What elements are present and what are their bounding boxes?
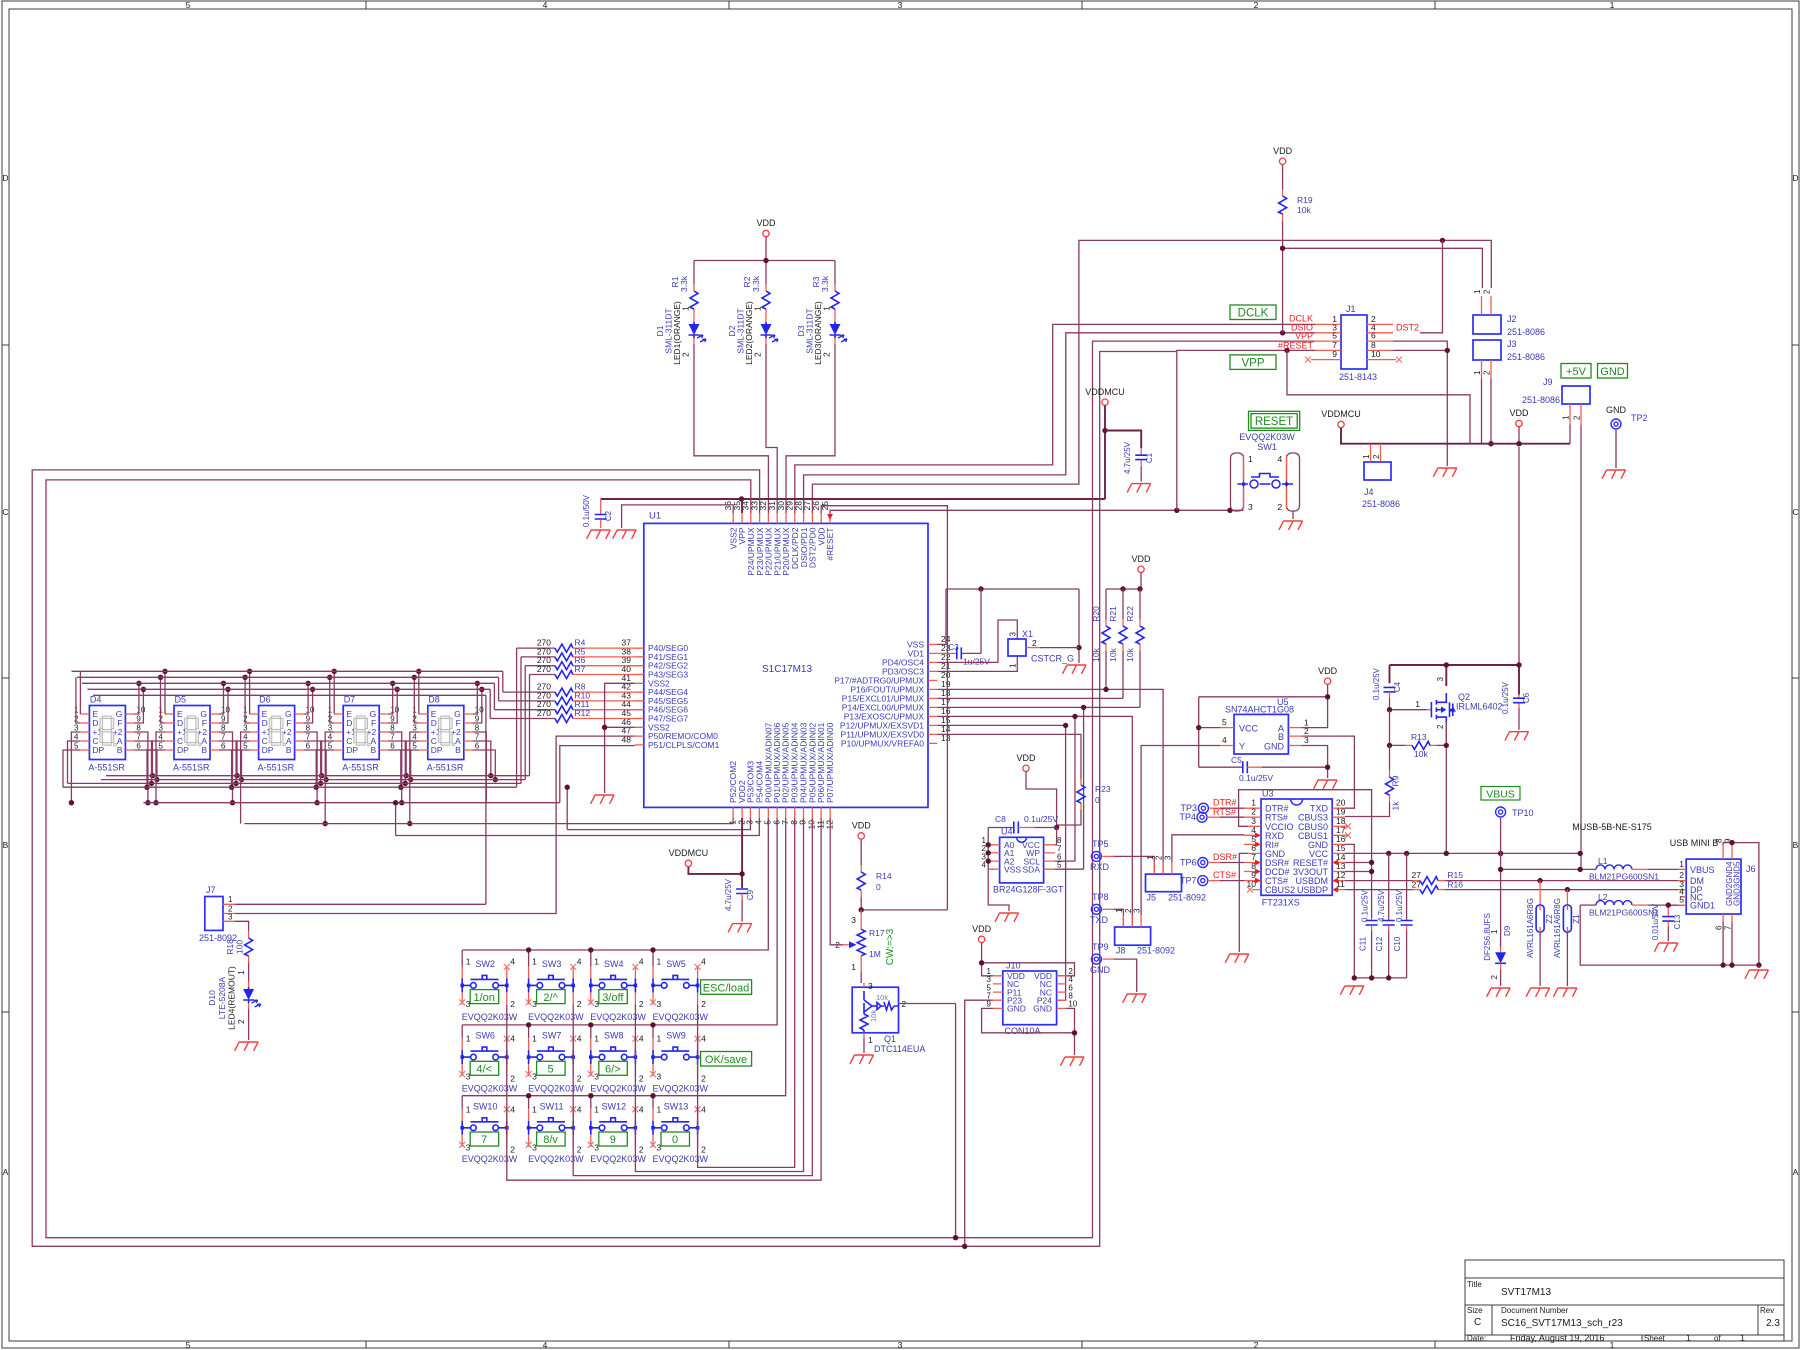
svg-text:1: 1 (1473, 289, 1482, 294)
wire display COM line A (143, 746, 634, 803)
wire DSIO net U1 pin28 to J1 pin3 (804, 333, 1315, 513)
svg-text:4.7u/25V: 4.7u/25V (1123, 441, 1132, 474)
power VDDMCU C1 (1102, 399, 1108, 405)
svg-text:SW4: SW4 (604, 959, 624, 969)
svg-text:VDD: VDD (852, 821, 872, 831)
svg-text:A-551SR: A-551SR (342, 763, 379, 773)
wire Q1 emitter to gnd (863, 1038, 865, 1053)
U1 right pins (928, 644, 937, 743)
resistor R14 0 (857, 865, 865, 897)
wire U4 VCC to C8 (1055, 828, 1057, 845)
diode D9 DF2S6.8UFS (1483, 869, 1512, 986)
junction VPP pin35 (739, 496, 744, 501)
svg-text:GND: GND (1606, 405, 1627, 415)
frame zone ticks bottom (366, 1341, 1435, 1348)
wire VCC row to +5V vertical (1345, 852, 1580, 854)
svg-text:2: 2 (1483, 289, 1492, 294)
svg-text:9: 9 (221, 715, 226, 724)
svg-text:TP7: TP7 (1180, 876, 1197, 886)
svg-text:2: 2 (639, 1074, 644, 1084)
svg-text:4: 4 (243, 733, 248, 742)
svg-text:D5: D5 (175, 695, 187, 705)
svg-text:1: 1 (594, 1104, 599, 1114)
wire RESET# 3V3OUT to C11 column (1345, 863, 1372, 872)
svg-text:9: 9 (1332, 349, 1337, 359)
svg-text:4: 4 (543, 0, 548, 10)
svg-text:1: 1 (236, 970, 246, 975)
wire keypad column 1 (507, 818, 821, 1180)
svg-text:2: 2 (701, 999, 706, 1009)
switch SW3 EVQQ2K03W (526, 957, 585, 1022)
wire pin21 to X1 pin1 (937, 656, 1017, 671)
label VPP green box (1230, 355, 1276, 370)
svg-text:C13: C13 (1673, 914, 1682, 929)
junction row 2 (526, 1022, 656, 1027)
switch SW4 EVQQ2K03W (588, 957, 647, 1022)
key label 4/< (470, 1061, 499, 1075)
svg-text:2: 2 (753, 352, 763, 357)
inductor L1 BLM21PG600SN1 (1589, 856, 1686, 882)
svg-text:2: 2 (236, 1019, 246, 1024)
svg-text:EVQQ2K03W: EVQQ2K03W (590, 1154, 646, 1164)
svg-text:VDD: VDD (1509, 408, 1529, 418)
junction row 3 (526, 1093, 656, 1098)
frame zone letters right (1792, 173, 1798, 1177)
wire Q1 pin2 east (899, 1004, 956, 1238)
svg-text:TP10: TP10 (1512, 808, 1534, 818)
resistor R4 270 (517, 638, 644, 788)
wire R14 to R17 junction (861, 897, 947, 910)
label GND green box (1598, 364, 1628, 379)
svg-text:SN74AHCT1G08: SN74AHCT1G08 (1225, 705, 1294, 715)
wire VSS2 pins 41 46 to gnd (605, 683, 635, 793)
capacitor C2 0.1u/50V (582, 494, 613, 528)
capacitor C9 4.7u/25V (724, 878, 755, 921)
svg-text:2: 2 (701, 1074, 706, 1084)
wire U5 GND to gnd (1302, 746, 1328, 779)
svg-text:SW3: SW3 (542, 959, 562, 969)
wire COM line C (567, 787, 750, 829)
svg-text:5: 5 (1222, 717, 1227, 727)
resistor R12 270 (490, 689, 644, 722)
svg-text:6: 6 (306, 742, 311, 751)
svg-text:1: 1 (1686, 1333, 1691, 1343)
svg-text:1/on: 1/on (473, 992, 494, 1004)
svg-text:1: 1 (594, 957, 599, 967)
wire D10 to gnd (248, 1009, 250, 1040)
svg-text:U4: U4 (1001, 827, 1013, 837)
svg-text:R22: R22 (1125, 606, 1135, 622)
svg-text:3: 3 (851, 915, 856, 925)
svg-text:LED4(REMOUT): LED4(REMOUT) (227, 966, 237, 1030)
svg-text:251-8092: 251-8092 (1168, 893, 1206, 903)
power VDD R14 (858, 833, 864, 839)
wire U5 VCC net (1199, 685, 1328, 768)
ground J1 (1433, 468, 1457, 477)
wire VDD to J10 pins 1 2 (982, 943, 1075, 976)
svg-text:4/<: 4/< (476, 1064, 492, 1076)
svg-text:C: C (1792, 507, 1798, 517)
wire #RESET net U1 pin25 to SW1 (830, 510, 1244, 517)
resistor R16 27 (1345, 879, 1686, 893)
switch SW1 EVQQ2K03W (1231, 432, 1300, 512)
junction #RESET J1 row (1284, 348, 1289, 353)
display D8 A-551SR (412, 695, 484, 773)
svg-text:C5: C5 (1231, 755, 1242, 765)
wire keypad column 4 (698, 818, 795, 1167)
svg-text:R14: R14 (876, 871, 892, 881)
svg-text:OK/save: OK/save (705, 1054, 747, 1066)
ground decoupling (1340, 986, 1364, 995)
svg-text:1M: 1M (869, 949, 881, 959)
junction R19 J2 branch (1280, 246, 1285, 251)
wire L2 to gnd bottom bus (1580, 905, 1759, 965)
svg-text:4: 4 (412, 733, 417, 742)
resistor R22 10k (1136, 619, 1144, 651)
svg-text:VBUS: VBUS (1486, 788, 1515, 800)
svg-text:A-551SR: A-551SR (88, 763, 125, 773)
svg-text:J4: J4 (1364, 487, 1374, 497)
svg-text:1: 1 (1415, 699, 1420, 709)
svg-text:8: 8 (306, 724, 311, 733)
wire DST2 net U1 pin27 to J2 pin2 (812, 240, 1491, 513)
junction dots D7 (314, 669, 414, 827)
svg-text:2: 2 (1483, 370, 1492, 375)
resistor R19 10k (1279, 189, 1287, 221)
svg-text:5: 5 (243, 742, 248, 751)
svg-text:0.1u/25V: 0.1u/25V (1361, 889, 1370, 922)
svg-text:2/^: 2/^ (543, 992, 558, 1004)
svg-text:2: 2 (1254, 0, 1259, 10)
ground SW1 (1279, 521, 1303, 530)
key label 6/> (599, 1061, 628, 1075)
wire P12 row15 to J10 pin8 (937, 725, 1065, 1000)
svg-text:2: 2 (577, 999, 582, 1009)
wire J7 pin3 to R18 (235, 921, 249, 931)
svg-text:4: 4 (639, 1104, 644, 1114)
svg-text:C11: C11 (1359, 936, 1368, 951)
svg-text:C2: C2 (604, 510, 613, 521)
svg-text:0.1u/25V: 0.1u/25V (1372, 667, 1381, 700)
display D7 A-551SR (328, 695, 400, 773)
svg-text:SW6: SW6 (475, 1031, 495, 1041)
svg-text:1: 1 (851, 962, 856, 972)
svg-text:SW1: SW1 (1257, 442, 1277, 452)
svg-text:DF2S6.8UFS: DF2S6.8UFS (1483, 913, 1492, 961)
transistor Q1 DTC114EUA (852, 981, 925, 1054)
wire P24 pin34 long left loop (46, 341, 1315, 1238)
svg-text:VCC: VCC (1239, 724, 1259, 734)
wire U3 GND pin16 down (1345, 844, 1354, 978)
svg-text:TP9: TP9 (1092, 942, 1109, 952)
crystal X1 CSTCR_G (1008, 629, 1079, 668)
svg-text:R23: R23 (1095, 784, 1111, 794)
svg-text:DST2: DST2 (1396, 323, 1419, 333)
svg-text:9: 9 (987, 1000, 992, 1009)
svg-text:8: 8 (136, 724, 141, 733)
svg-text:EVQQ2K03W: EVQQ2K03W (462, 1154, 518, 1164)
svg-text:27: 27 (1412, 879, 1422, 889)
wire display D5 taps (147, 671, 242, 802)
svg-text:251-8086: 251-8086 (1522, 395, 1560, 405)
key label 9 (599, 1132, 628, 1146)
LED D1 SML-311DT (689, 316, 707, 344)
svg-text:1: 1 (1146, 855, 1155, 860)
svg-text:Sheet: Sheet (1644, 1334, 1666, 1343)
svg-text:EVQQ2K03W: EVQQ2K03W (528, 1012, 584, 1022)
svg-text:1: 1 (657, 1034, 662, 1044)
ground D10 (235, 1042, 259, 1051)
svg-text:SW12: SW12 (602, 1101, 627, 1111)
ground Z2 (1526, 988, 1550, 997)
svg-text:6: 6 (1715, 925, 1724, 930)
svg-text:SVT17M13: SVT17M13 (1501, 1287, 1551, 1298)
svg-text:D8: D8 (428, 695, 440, 705)
svg-text:GND3GND5: GND3GND5 (1733, 861, 1742, 906)
svg-text:2: 2 (1032, 638, 1037, 648)
svg-text:Document Number: Document Number (1501, 1306, 1568, 1315)
wire J6 gnd pins bottom (1723, 922, 1732, 965)
svg-text:3: 3 (74, 724, 79, 733)
svg-text:EVQQ2K03W: EVQQ2K03W (653, 1012, 709, 1022)
switch SW12 EVQQ2K03W (588, 1101, 647, 1164)
svg-text:3: 3 (657, 999, 662, 1009)
svg-text:C1: C1 (1145, 452, 1154, 463)
svg-text:A-551SR: A-551SR (427, 763, 464, 773)
svg-text:4: 4 (543, 1340, 548, 1350)
svg-text:4: 4 (159, 733, 164, 742)
svg-text:10: 10 (1371, 349, 1381, 359)
svg-text:P07/UPMUX/ADIN00: P07/UPMUX/ADIN00 (825, 722, 835, 803)
svg-text:2: 2 (1124, 908, 1133, 913)
svg-text:GND1: GND1 (1690, 901, 1715, 911)
wire TP2 to gnd (1615, 430, 1617, 468)
power VDD R19 (1279, 158, 1285, 164)
svg-text:U1: U1 (649, 511, 661, 522)
svg-text:0.1u/25V: 0.1u/25V (1024, 814, 1058, 824)
svg-text:C9: C9 (746, 889, 755, 900)
svg-text:251-8143: 251-8143 (1339, 372, 1377, 382)
wire R18 to D10 (248, 963, 250, 981)
frame zone ticks left (2, 345, 9, 1012)
svg-text:5: 5 (548, 1064, 554, 1076)
frame zone ticks right (1792, 345, 1799, 1012)
junction Z2 Z1 (1537, 878, 1542, 883)
svg-text:5: 5 (412, 742, 417, 751)
svg-text:R17: R17 (869, 928, 885, 938)
svg-text:1: 1 (1009, 663, 1018, 668)
svg-text:10: 10 (136, 706, 145, 715)
resistor R23 0 (1077, 778, 1085, 810)
svg-text:P10/UPMUX/VREFA0: P10/UPMUX/VREFA0 (841, 738, 924, 748)
wire VCCIO net U3 pin3 (1239, 790, 1372, 918)
wire display D7 taps (316, 671, 411, 823)
svg-text:10: 10 (306, 706, 315, 715)
svg-text:3: 3 (1164, 855, 1173, 860)
svg-text:251-8086: 251-8086 (1507, 327, 1545, 337)
capacitor C13 0.01u/50V (1651, 902, 1686, 941)
svg-text:6/>: 6/> (605, 1064, 621, 1076)
key label 7 (470, 1132, 499, 1146)
capacitor C5 0.1u/25V (1199, 755, 1328, 783)
svg-text:4: 4 (639, 957, 644, 967)
svg-text:4: 4 (577, 957, 582, 967)
svg-text:SW8: SW8 (604, 1031, 624, 1041)
resistor R8 270 (503, 671, 644, 696)
wire J10 P23 pin7 to loop (965, 1000, 993, 1246)
svg-text:VPP: VPP (1295, 331, 1313, 341)
wire J9 pin1 to VDD bus (1569, 425, 1571, 444)
svg-text:R20: R20 (1091, 606, 1101, 622)
svg-text:1: 1 (532, 1034, 537, 1044)
svg-text:270: 270 (537, 664, 551, 674)
svg-text:B: B (286, 745, 292, 755)
svg-text:10k: 10k (1297, 205, 1311, 215)
svg-text:2: 2 (822, 352, 832, 357)
svg-text:4: 4 (639, 1034, 644, 1044)
svg-text:251-8092: 251-8092 (1137, 946, 1175, 956)
svg-text:R13: R13 (1411, 732, 1427, 742)
wire R23 to C8 (1057, 810, 1081, 828)
svg-text:TP8: TP8 (1092, 892, 1109, 902)
svg-text:Q1: Q1 (884, 1034, 896, 1044)
varistor Z2 AVRL161A6R8G (1526, 881, 1554, 986)
testpoint TP10 (1496, 807, 1506, 817)
frame zone letters left (2, 173, 8, 1177)
header J2 251-8086 (1473, 289, 1545, 337)
svg-text:IRLML6402: IRLML6402 (1456, 702, 1503, 712)
svg-text:+5V: +5V (1566, 366, 1587, 378)
svg-text:10k: 10k (1091, 647, 1101, 661)
svg-text:TP5: TP5 (1092, 839, 1109, 849)
svg-text:DP: DP (346, 745, 358, 755)
svg-text:VDDMCU: VDDMCU (1321, 409, 1361, 419)
svg-text:0.1u/25V: 0.1u/25V (1395, 889, 1404, 922)
svg-text:1: 1 (466, 1034, 471, 1044)
resistor R9 1k (1345, 745, 1401, 816)
wire U1 pin12 to R17 wiper (830, 818, 843, 945)
power VDD U4 (1023, 765, 1029, 771)
capacitor C8 0.1u/25V (988, 814, 1058, 834)
junction DSIO R19 (1280, 330, 1285, 335)
svg-text:4: 4 (510, 957, 515, 967)
svg-text:4: 4 (510, 1034, 515, 1044)
svg-text:0: 0 (672, 1134, 678, 1146)
capacitor C1 4.7u/25V (1123, 441, 1154, 481)
ground TP2 (1602, 470, 1626, 479)
svg-text:DCLK: DCLK (1238, 308, 1269, 320)
wire VDDMCU down to VPP line (1104, 406, 1106, 500)
svg-text:Friday, August 19, 2016: Friday, August 19, 2016 (1510, 1333, 1604, 1343)
svg-text:J5: J5 (1147, 893, 1157, 903)
wire DCLK net U1 pin29 to J1 pin1 (795, 324, 1315, 513)
frame zone numbers bottom (186, 1340, 1615, 1350)
wire VDD pin26 to R14 (821, 506, 947, 910)
usb connector J6 MUSB-5B-NE-S175 (1572, 822, 1755, 930)
svg-text:1: 1 (532, 957, 537, 967)
ground crystal (1063, 665, 1087, 674)
svg-text:USBDP: USBDP (1297, 885, 1328, 895)
resistor R10 270 (499, 677, 644, 705)
svg-text:1: 1 (868, 1035, 873, 1045)
svg-text:B: B (117, 745, 123, 755)
svg-text:D7: D7 (344, 695, 356, 705)
header J10 CON10A (987, 961, 1078, 1037)
svg-text:B: B (1278, 732, 1284, 742)
svg-text:2: 2 (510, 1074, 515, 1084)
svg-text:2: 2 (1490, 974, 1499, 979)
svg-text:3: 3 (228, 913, 233, 922)
wire J1 pin6 pin8 to gnd (1393, 341, 1447, 466)
wire keypad column 3 (635, 818, 803, 1172)
svg-text:3: 3 (657, 1072, 662, 1082)
svg-text:CON10A: CON10A (1005, 1026, 1041, 1036)
svg-text:VSS: VSS (1004, 864, 1021, 874)
wire VDDMCU bus (1341, 428, 1570, 444)
switch SW8 EVQQ2K03W (588, 1031, 647, 1094)
svg-text:10: 10 (221, 706, 230, 715)
wire P23 pin33 long left loop (32, 352, 1177, 1247)
key label 5 (537, 1061, 566, 1075)
label VBUS green box (1481, 787, 1520, 801)
svg-text:EVQQ2K03W: EVQQ2K03W (528, 1154, 584, 1164)
svg-text:2: 2 (577, 1144, 582, 1154)
ground U3 left (1225, 954, 1249, 963)
svg-text:A-551SR: A-551SR (258, 763, 295, 773)
key label 2/^ (537, 990, 566, 1004)
svg-text:5: 5 (186, 0, 191, 10)
svg-text:A: A (1793, 1167, 1799, 1177)
wire display D6 taps (232, 671, 327, 823)
svg-text:DP: DP (431, 745, 443, 755)
svg-text:#RESET: #RESET (1278, 341, 1314, 351)
svg-text:4: 4 (1222, 735, 1227, 745)
svg-text:CW:=>3: CW:=>3 (885, 928, 896, 965)
wire VDD down to Q2 node (1518, 447, 1520, 665)
svg-text:9: 9 (306, 715, 311, 724)
LED D2 SML-311DT (761, 316, 779, 344)
key label 1/on (470, 990, 499, 1004)
svg-text:B: B (1793, 840, 1799, 850)
svg-text:DP: DP (262, 745, 274, 755)
svg-text:7: 7 (136, 733, 141, 742)
svg-text:2: 2 (1254, 1340, 1259, 1350)
svg-text:8: 8 (1715, 838, 1724, 843)
svg-text:L1: L1 (1598, 856, 1608, 866)
svg-text:3: 3 (1436, 677, 1445, 682)
svg-text:7: 7 (390, 733, 395, 742)
svg-text:A: A (3, 1167, 9, 1177)
junction DST2 J1 pin4 branch (1440, 238, 1445, 243)
svg-text:Title: Title (1467, 1280, 1482, 1289)
svg-text:1: 1 (1562, 415, 1571, 420)
wire TP8 to J8 pin1 (1114, 909, 1123, 927)
svg-text:7: 7 (306, 733, 311, 742)
svg-text:1: 1 (466, 957, 471, 967)
capacitor C12 4.7u/25V (1375, 853, 1395, 978)
svg-text:3.3k: 3.3k (820, 275, 830, 292)
svg-text:3/off: 3/off (602, 992, 624, 1004)
svg-text:1k: 1k (1391, 801, 1401, 811)
svg-text:10k: 10k (1414, 749, 1428, 759)
svg-text:A-551SR: A-551SR (173, 763, 210, 773)
svg-text:EVQQ2K03W: EVQQ2K03W (590, 1012, 646, 1022)
svg-text:4: 4 (577, 1034, 582, 1044)
svg-text:9: 9 (610, 1134, 616, 1146)
svg-text:FT231XS: FT231XS (1262, 898, 1300, 908)
wire +5V J9 pin2 down long (1580, 425, 1582, 869)
svg-text:6: 6 (136, 742, 141, 751)
